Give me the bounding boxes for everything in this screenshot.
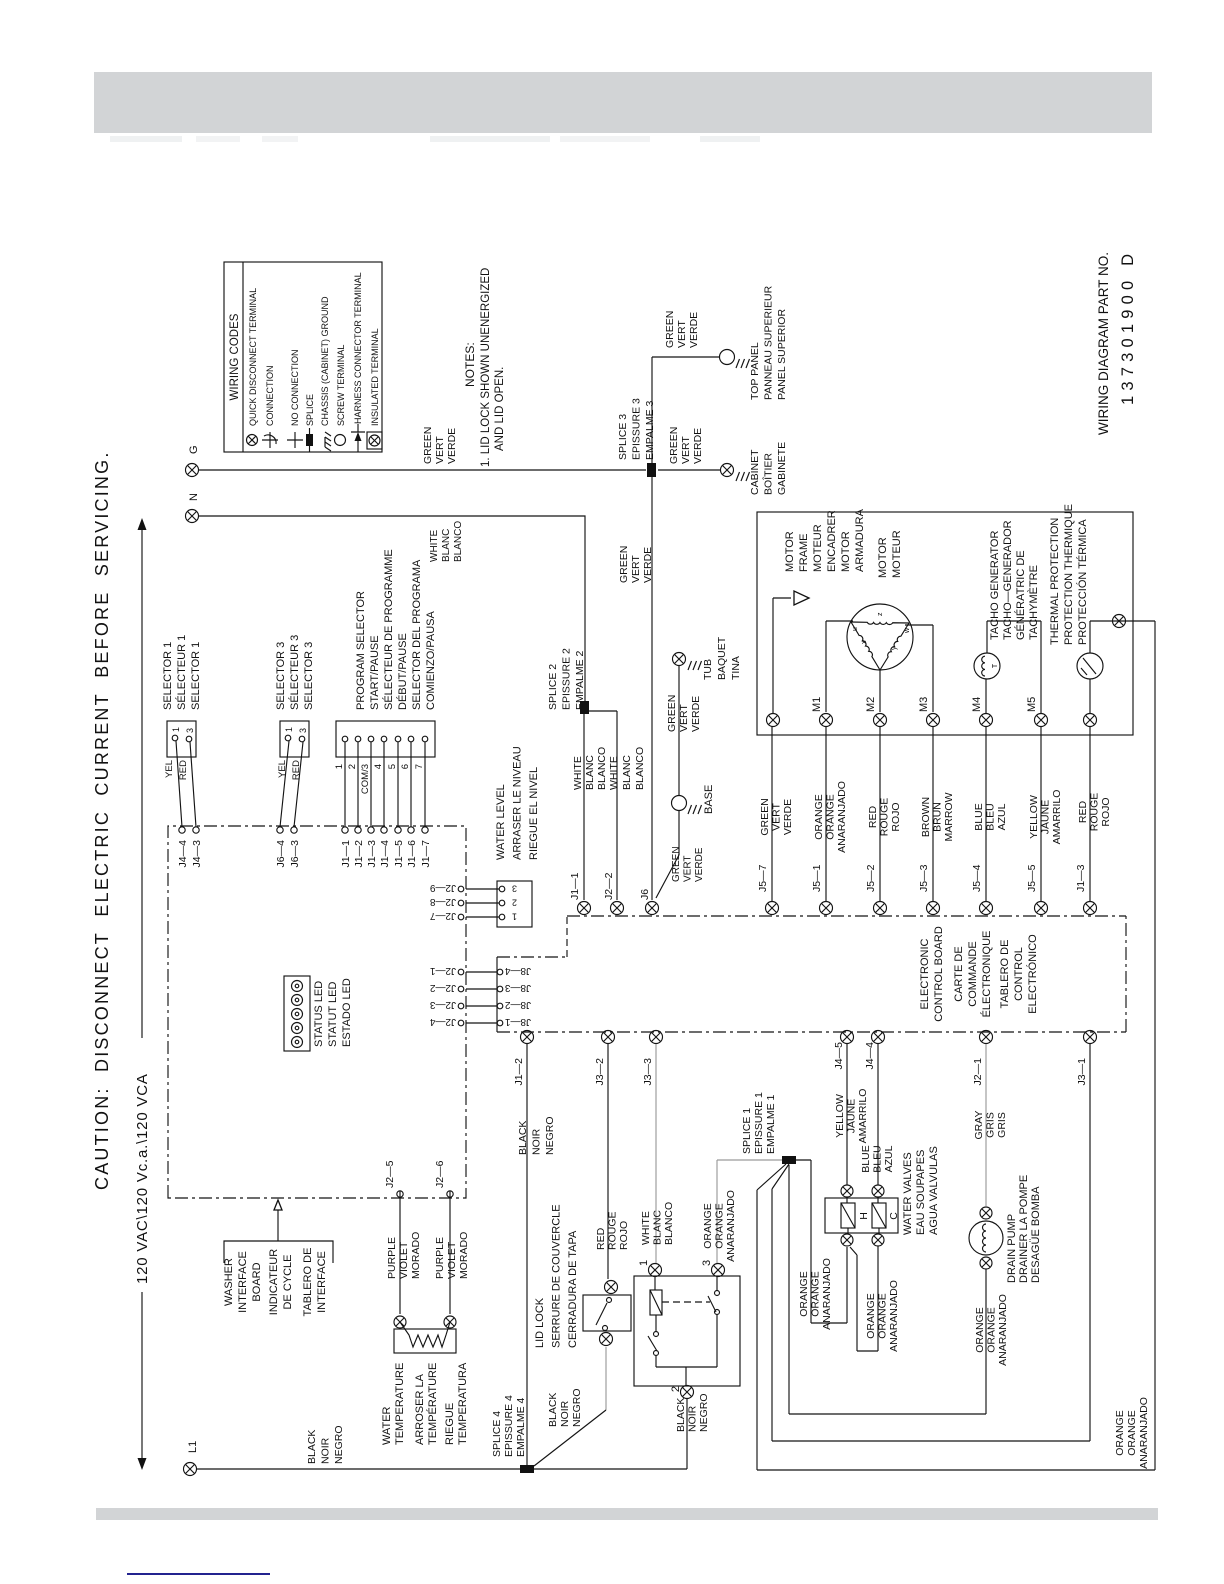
svg-text:ORANGE: ORANGE — [974, 1307, 986, 1353]
svg-text:WASHER: WASHER — [223, 1258, 235, 1306]
svg-text:DRAIN PUMP: DRAIN PUMP — [1006, 1214, 1018, 1283]
svg-text:PROTECCIÓN TÉRMICA: PROTECCIÓN TÉRMICA — [1076, 519, 1089, 645]
svg-text:WHITE: WHITE — [608, 756, 620, 790]
svg-text:CONNECTION: CONNECTION — [265, 366, 275, 427]
svg-text:RED: RED — [178, 760, 189, 780]
svg-text:WIRING CODES: WIRING CODES — [229, 313, 241, 400]
svg-text:SÉLECTEUR 1: SÉLECTEUR 1 — [175, 635, 188, 710]
svg-text:RED: RED — [867, 805, 879, 828]
svg-text:DRAINER LA POMPE: DRAINER LA POMPE — [1018, 1175, 1030, 1283]
svg-text:NO CONNECTION: NO CONNECTION — [290, 350, 300, 427]
svg-text:GREEN: GREEN — [668, 427, 680, 464]
svg-text:J2—3: J2—3 — [429, 999, 456, 1010]
svg-text:PANNEAU SUPERIEUR: PANNEAU SUPERIEUR — [763, 285, 775, 400]
svg-text:TACHO—GENERADOR: TACHO—GENERADOR — [1002, 520, 1014, 640]
svg-text:YEL: YEL — [164, 760, 175, 778]
svg-text:EAU SOUPAPES: EAU SOUPAPES — [915, 1150, 927, 1235]
svg-text:VERT: VERT — [678, 704, 690, 732]
svg-text:MOTOR: MOTOR — [784, 531, 796, 572]
svg-text:GRAY: GRAY — [973, 1111, 985, 1140]
svg-text:NOIR: NOIR — [531, 1128, 543, 1155]
svg-text:ANARANJADO: ANARANJADO — [1138, 1397, 1150, 1469]
svg-text:SPLICE: SPLICE — [305, 394, 315, 426]
svg-text:ORANGE: ORANGE — [825, 794, 837, 840]
svg-text:WHITE: WHITE — [572, 756, 584, 790]
svg-text:4: 4 — [373, 764, 384, 769]
svg-text:J8—3: J8—3 — [504, 982, 531, 993]
svg-text:T: T — [992, 663, 999, 668]
svg-text:WATER VALVES: WATER VALVES — [902, 1152, 914, 1235]
svg-text:J1—7: J1—7 — [420, 840, 432, 868]
svg-text:YEL: YEL — [277, 760, 288, 778]
svg-text:ROJO: ROJO — [618, 1221, 630, 1250]
svg-text:VERT: VERT — [771, 803, 783, 831]
svg-text:J2—2: J2—2 — [603, 872, 615, 900]
svg-text:VERDE: VERDE — [694, 847, 705, 882]
svg-text:6: 6 — [400, 764, 411, 769]
svg-text:TUB: TUB — [702, 659, 714, 680]
svg-text:ORANGE: ORANGE — [813, 794, 825, 840]
svg-text:RED: RED — [291, 760, 302, 780]
svg-text:ELECTRÓNICO: ELECTRÓNICO — [1026, 934, 1039, 1014]
svg-text:J1—5: J1—5 — [393, 840, 405, 868]
svg-text:J1—1: J1—1 — [569, 872, 581, 900]
svg-text:CARTE DE: CARTE DE — [953, 946, 965, 1001]
svg-text:BOÎTIER: BOÎTIER — [762, 453, 775, 495]
svg-text:H: H — [858, 1212, 870, 1220]
svg-text:NEGRO: NEGRO — [333, 1425, 345, 1464]
svg-text:EPISSURE 4: EPISSURE 4 — [503, 1395, 515, 1457]
svg-text:AND LID OPEN.: AND LID OPEN. — [494, 367, 506, 451]
svg-text:PURPLE: PURPLE — [386, 1237, 398, 1279]
svg-text:VERDE: VERDE — [642, 547, 654, 583]
svg-text:JAUNE: JAUNE — [1040, 800, 1052, 834]
svg-text:RIEGUE: RIEGUE — [444, 1403, 456, 1445]
svg-text:ANARANJADO: ANARANJADO — [725, 1190, 737, 1262]
svg-text:GREEN: GREEN — [422, 427, 434, 464]
svg-text:LID LOCK: LID LOCK — [534, 1297, 546, 1348]
svg-text:ORANGE: ORANGE — [1126, 1410, 1138, 1456]
svg-text:VERT: VERT — [680, 436, 692, 464]
svg-text:J1—3: J1—3 — [366, 840, 378, 868]
svg-text:J6—3: J6—3 — [289, 840, 301, 868]
svg-text:ORANGE: ORANGE — [877, 1293, 889, 1339]
svg-text:SELECTOR 3: SELECTOR 3 — [303, 642, 315, 710]
svg-text:VIOLET: VIOLET — [398, 1241, 410, 1279]
svg-text:J2—1: J2—1 — [972, 1058, 984, 1086]
svg-text:1: 1 — [638, 1260, 650, 1266]
svg-text:J2—8: J2—8 — [429, 896, 456, 907]
svg-text:SÉLECTEUR 3: SÉLECTEUR 3 — [288, 635, 301, 710]
svg-text:YELLOW: YELLOW — [834, 1094, 846, 1138]
svg-text:ROJO: ROJO — [1100, 797, 1112, 826]
svg-text:CERRADURA DE TAPA: CERRADURA DE TAPA — [567, 1230, 579, 1348]
svg-text:BLANC: BLANC — [584, 755, 596, 790]
svg-text:YELLOW: YELLOW — [1028, 795, 1040, 839]
svg-text:J5—1: J5—1 — [811, 864, 823, 892]
svg-text:NOTES:: NOTES: — [463, 342, 477, 387]
svg-text:EPISSURE 3: EPISSURE 3 — [631, 398, 643, 460]
svg-text:M3: M3 — [918, 697, 930, 712]
svg-text:GREEN: GREEN — [671, 846, 682, 882]
svg-text:GRIS: GRIS — [996, 1112, 1008, 1138]
svg-text:ÉLECTRONIQUE: ÉLECTRONIQUE — [980, 931, 993, 1018]
svg-text:DÉBUT/PAUSE: DÉBUT/PAUSE — [396, 633, 409, 710]
svg-text:ANARANJADO: ANARANJADO — [997, 1294, 1009, 1366]
svg-text:BLACK: BLACK — [517, 1121, 529, 1155]
svg-text:CHASSIS (CABINET) GROUND: CHASSIS (CABINET) GROUND — [320, 296, 330, 426]
svg-text:NEGRO: NEGRO — [544, 1116, 556, 1155]
svg-text:COM/3: COM/3 — [360, 764, 371, 794]
svg-text:1. LID LOCK SHOWN UNENERGIZED: 1. LID LOCK SHOWN UNENERGIZED — [480, 268, 492, 467]
svg-text:ANARANJADO: ANARANJADO — [888, 1280, 900, 1352]
svg-text:TACHYMÈTRE: TACHYMÈTRE — [1027, 565, 1040, 640]
svg-text:NOIR: NOIR — [687, 1405, 699, 1432]
svg-text:M5: M5 — [1026, 697, 1038, 712]
svg-text:VERDE: VERDE — [446, 428, 458, 464]
svg-text:ORANGE: ORANGE — [865, 1293, 877, 1339]
svg-text:ESTADO LED: ESTADO LED — [341, 978, 353, 1047]
svg-text:MOTEUR: MOTEUR — [812, 524, 824, 572]
svg-text:VERDE: VERDE — [782, 799, 794, 835]
svg-text:VERDE: VERDE — [692, 428, 704, 464]
svg-text:ROUGE: ROUGE — [1089, 793, 1101, 832]
svg-text:J2—9: J2—9 — [429, 882, 456, 893]
svg-text:ENCADRER: ENCADRER — [826, 510, 838, 572]
svg-text:J1—1: J1—1 — [340, 840, 352, 868]
svg-text:WHITE: WHITE — [640, 1211, 652, 1245]
svg-text:VERT: VERT — [630, 555, 642, 583]
svg-text:COMMANDE: COMMANDE — [967, 941, 979, 1006]
svg-text:GREEN: GREEN — [664, 311, 676, 348]
svg-text:PANEL SUPERIOR: PANEL SUPERIOR — [776, 309, 788, 400]
svg-text:M4: M4 — [971, 697, 983, 712]
svg-text:z: z — [877, 612, 884, 616]
svg-text:BROWN: BROWN — [920, 797, 932, 837]
svg-text:5: 5 — [387, 764, 398, 769]
svg-text:TABLERO DE: TABLERO DE — [999, 940, 1011, 1009]
svg-text:GREEN: GREEN — [618, 546, 630, 583]
svg-text:WATER: WATER — [381, 1406, 393, 1445]
svg-text:J8—1: J8—1 — [504, 1016, 531, 1027]
svg-text:ORANGE: ORANGE — [702, 1203, 714, 1249]
svg-text:TABLERO DE: TABLERO DE — [302, 1248, 314, 1317]
svg-text:J1—6: J1—6 — [406, 840, 418, 868]
svg-text:ORANGE: ORANGE — [714, 1203, 726, 1249]
svg-text:TACHO GENERATOR: TACHO GENERATOR — [989, 531, 1001, 640]
svg-text:J5—2: J5—2 — [865, 864, 877, 892]
svg-text:3: 3 — [298, 728, 308, 733]
svg-text:BLANCO: BLANCO — [453, 521, 464, 562]
svg-text:FRAME: FRAME — [798, 534, 810, 573]
svg-text:INSULATED TERMINAL: INSULATED TERMINAL — [370, 328, 380, 426]
svg-text:DE CYCLE: DE CYCLE — [282, 1254, 294, 1309]
svg-text:BLANC: BLANC — [652, 1210, 664, 1245]
svg-text:EMPALME 4: EMPALME 4 — [515, 1398, 527, 1457]
svg-text:SCREW TERMINAL: SCREW TERMINAL — [336, 345, 346, 426]
svg-text:JAUNE: JAUNE — [846, 1099, 858, 1133]
svg-text:ARROSER LA: ARROSER LA — [414, 1373, 426, 1445]
svg-text:ARMADURA: ARMADURA — [854, 508, 866, 572]
svg-text:120 VAC\120 Vc.a.\120 VCA: 120 VAC\120 Vc.a.\120 VCA — [134, 1073, 151, 1284]
svg-text:VERDE: VERDE — [690, 696, 702, 732]
svg-text:1: 1 — [171, 727, 181, 732]
svg-text:TEMPERATURE: TEMPERATURE — [394, 1363, 406, 1445]
svg-text:AZUL: AZUL — [883, 1145, 895, 1172]
svg-text:SPLICE 3: SPLICE 3 — [617, 414, 629, 460]
svg-text:BLACK: BLACK — [306, 1430, 318, 1464]
svg-text:J4—3: J4—3 — [191, 840, 203, 868]
svg-text:BLANC: BLANC — [441, 529, 452, 562]
svg-text:WHITE: WHITE — [429, 529, 440, 562]
svg-text:MARROW: MARROW — [943, 792, 955, 841]
svg-text:VIOLET: VIOLET — [446, 1241, 458, 1279]
svg-text:J4—4: J4—4 — [177, 840, 189, 868]
svg-text:SPLICE 4: SPLICE 4 — [491, 1411, 503, 1457]
svg-text:C: C — [888, 1212, 900, 1220]
svg-text:x: x — [861, 640, 868, 644]
svg-text:7: 7 — [414, 764, 425, 769]
svg-text:VERT: VERT — [683, 856, 694, 883]
svg-text:SERRURE DE COUVERCLE: SERRURE DE COUVERCLE — [551, 1204, 563, 1348]
svg-text:AMARRILO: AMARRILO — [857, 1089, 869, 1144]
svg-text:HARNESS CONNECTOR TERMINAL: HARNESS CONNECTOR TERMINAL — [353, 272, 363, 424]
svg-text:J1—2: J1—2 — [353, 840, 365, 868]
svg-text:ORANGE: ORANGE — [1114, 1410, 1126, 1456]
svg-text:NEGRO: NEGRO — [571, 1388, 583, 1427]
svg-text:WIRING DIAGRAM PART NO.: WIRING DIAGRAM PART NO. — [1096, 252, 1111, 435]
svg-text:VERT: VERT — [676, 320, 688, 348]
svg-text:BLEU: BLEU — [872, 1145, 884, 1172]
svg-text:1: 1 — [334, 764, 345, 769]
svg-text:J2—6: J2—6 — [434, 1160, 446, 1188]
svg-text:J1—2: J1—2 — [513, 1058, 525, 1086]
svg-text:w: w — [904, 627, 911, 634]
svg-text:3: 3 — [512, 884, 517, 894]
svg-text:J2—4: J2—4 — [429, 1016, 456, 1027]
svg-text:ANARANJADO: ANARANJADO — [836, 781, 848, 853]
svg-text:ORANGE: ORANGE — [986, 1307, 998, 1353]
svg-text:ARRASER LE NIVEAU: ARRASER LE NIVEAU — [512, 746, 524, 860]
svg-text:MOTOR: MOTOR — [877, 537, 889, 578]
svg-text:VERT: VERT — [434, 436, 446, 464]
svg-text:u: u — [852, 627, 859, 631]
svg-text:J2—1: J2—1 — [429, 965, 456, 976]
svg-text:J6—4: J6—4 — [275, 840, 287, 868]
svg-text:DESAGÜE BOMBA: DESAGÜE BOMBA — [1030, 1186, 1042, 1283]
svg-text:J2—5: J2—5 — [384, 1160, 396, 1188]
svg-text:START/PAUSE: START/PAUSE — [369, 635, 381, 710]
svg-text:CABINET: CABINET — [749, 449, 761, 495]
svg-text:INDICATEUR: INDICATEUR — [268, 1249, 280, 1315]
svg-text:BLACK: BLACK — [547, 1393, 559, 1427]
svg-text:SÉLECTEUR DE PROGRAMME: SÉLECTEUR DE PROGRAMME — [382, 549, 395, 710]
svg-text:BAQUET: BAQUET — [716, 636, 728, 680]
svg-text:MOTEUR: MOTEUR — [891, 530, 903, 578]
svg-text:QUICK DISCONNECT TERMINAL: QUICK DISCONNECT TERMINAL — [248, 288, 258, 426]
svg-text:STATUS LED: STATUS LED — [313, 981, 325, 1047]
svg-text:NEGRO: NEGRO — [698, 1393, 710, 1432]
svg-text:SELECTOR 1: SELECTOR 1 — [162, 642, 174, 710]
svg-text:INTERFACE: INTERFACE — [316, 1251, 328, 1313]
svg-text:RED: RED — [595, 1227, 607, 1250]
svg-text:BLEU: BLEU — [985, 803, 997, 830]
svg-text:AZUL: AZUL — [996, 803, 1008, 830]
svg-text:INTERFACE: INTERFACE — [237, 1251, 249, 1313]
svg-text:MORADO: MORADO — [410, 1232, 422, 1279]
svg-text:SPLICE 2: SPLICE 2 — [547, 664, 559, 710]
svg-text:GREEN: GREEN — [759, 798, 771, 835]
svg-text:SELECTOR 1: SELECTOR 1 — [190, 642, 202, 710]
svg-text:COMIENZO/PAUSA: COMIENZO/PAUSA — [425, 611, 437, 710]
svg-text:GABINETE: GABINETE — [776, 442, 788, 495]
svg-text:J5—4: J5—4 — [971, 864, 983, 892]
svg-text:GRIS: GRIS — [985, 1112, 997, 1138]
svg-text:MORADO: MORADO — [458, 1232, 470, 1279]
svg-text:EMPALME 3: EMPALME 3 — [644, 401, 656, 460]
svg-text:EPISSURE 2: EPISSURE 2 — [561, 648, 573, 710]
svg-text:1: 1 — [284, 727, 294, 732]
svg-text:BASE: BASE — [703, 785, 715, 814]
svg-text:VERDE: VERDE — [688, 312, 700, 348]
svg-text:TOP PANEL: TOP PANEL — [749, 342, 761, 400]
svg-text:M1: M1 — [811, 697, 823, 712]
svg-text:MOTOR: MOTOR — [840, 531, 852, 572]
svg-text:EMPALME 1: EMPALME 1 — [765, 1095, 777, 1154]
svg-text:ELECTRONIC: ELECTRONIC — [919, 938, 931, 1009]
svg-text:J5—5: J5—5 — [1026, 864, 1038, 892]
svg-text:PROTECTION THERMIQUE: PROTECTION THERMIQUE — [1063, 504, 1075, 645]
svg-text:J6: J6 — [639, 889, 651, 900]
svg-text:NOIR: NOIR — [559, 1400, 571, 1427]
svg-text:THERMAL PROTECTION: THERMAL PROTECTION — [1049, 518, 1061, 645]
svg-text:J2—2: J2—2 — [429, 982, 456, 993]
svg-text:BLUE: BLUE — [860, 1145, 872, 1172]
svg-text:AMARRILO: AMARRILO — [1051, 790, 1063, 845]
svg-text:BOARD: BOARD — [251, 1262, 263, 1301]
svg-text:J2—7: J2—7 — [429, 910, 456, 921]
svg-text:WATER LEVEL: WATER LEVEL — [495, 784, 507, 860]
svg-text:EMPALME 2: EMPALME 2 — [574, 651, 586, 710]
svg-text:M2: M2 — [865, 697, 877, 712]
svg-text:CAUTION: DISCONNECT ELECTRIC: CAUTION: DISCONNECT ELECTRIC CURRENT BEF… — [92, 450, 112, 1190]
svg-text:ORANGE: ORANGE — [798, 1271, 810, 1317]
svg-text:RIEGUE EL NIVEL: RIEGUE EL NIVEL — [528, 767, 540, 860]
svg-text:J3—1: J3—1 — [1076, 1058, 1088, 1086]
svg-text:J1—4: J1—4 — [379, 840, 391, 868]
svg-text:137301900 D: 137301900 D — [1119, 249, 1137, 405]
svg-text:ROJO: ROJO — [890, 802, 902, 831]
svg-text:AGUA VALVULAS: AGUA VALVULAS — [928, 1146, 940, 1235]
svg-text:EPISSURE 1: EPISSURE 1 — [753, 1092, 765, 1154]
svg-text:L1: L1 — [187, 1441, 199, 1453]
svg-text:J3—2: J3—2 — [594, 1058, 606, 1086]
svg-text:SELECTOR 3: SELECTOR 3 — [275, 642, 287, 710]
svg-text:BLANC: BLANC — [621, 755, 633, 790]
svg-text:J8—4: J8—4 — [504, 965, 531, 976]
svg-text:GÉNÉRATRIC DE: GÉNÉRATRIC DE — [1014, 550, 1027, 640]
svg-text:NOIR: NOIR — [320, 1437, 332, 1464]
svg-text:PROGRAM SELECTOR: PROGRAM SELECTOR — [355, 591, 367, 710]
svg-text:2: 2 — [670, 1386, 682, 1392]
svg-text:G: G — [188, 445, 200, 454]
svg-text:SELECTOR DEL PROGRAMA: SELECTOR DEL PROGRAMA — [411, 559, 423, 710]
svg-text:3: 3 — [701, 1260, 713, 1266]
svg-text:J1—3: J1—3 — [1075, 864, 1087, 892]
svg-text:J5—3: J5—3 — [918, 864, 930, 892]
svg-text:BLANCO: BLANCO — [634, 747, 646, 790]
svg-text:BLUE: BLUE — [973, 803, 985, 830]
svg-text:BLACK: BLACK — [675, 1398, 687, 1432]
svg-text:J5—7: J5—7 — [757, 864, 769, 892]
svg-text:y: y — [891, 646, 898, 650]
svg-text:3: 3 — [185, 728, 195, 733]
svg-text:RED: RED — [1077, 800, 1089, 823]
svg-text:BRUN: BRUN — [932, 802, 944, 832]
svg-text:ORANGE: ORANGE — [810, 1271, 822, 1317]
svg-text:2: 2 — [347, 764, 358, 769]
svg-text:PURPLE: PURPLE — [434, 1237, 446, 1279]
svg-text:TEMPÉRATURE: TEMPÉRATURE — [426, 1363, 439, 1445]
svg-text:SPLICE 1: SPLICE 1 — [741, 1108, 753, 1154]
svg-text:ROUGE: ROUGE — [879, 798, 891, 837]
svg-text:J4—4: J4—4 — [864, 1042, 876, 1070]
svg-text:ANARANJADO: ANARANJADO — [821, 1258, 833, 1330]
svg-text:CONTROL: CONTROL — [1013, 947, 1025, 1001]
svg-text:ROUGE: ROUGE — [607, 1211, 619, 1250]
svg-text:TEMPERATURA: TEMPERATURA — [457, 1362, 469, 1445]
svg-text:J4—5: J4—5 — [833, 1042, 845, 1070]
svg-text:N: N — [188, 493, 200, 501]
svg-text:BLANCO: BLANCO — [596, 747, 608, 790]
svg-text:2: 2 — [512, 898, 517, 908]
svg-text:STATUT LED: STATUT LED — [327, 982, 339, 1047]
svg-text:TINA: TINA — [730, 656, 742, 680]
svg-text:J3—3: J3—3 — [642, 1058, 654, 1086]
svg-text:J8—2: J8—2 — [504, 999, 531, 1010]
svg-text:GREEN: GREEN — [666, 695, 678, 732]
svg-text:BLANCO: BLANCO — [663, 1202, 675, 1245]
svg-text:1: 1 — [512, 912, 517, 922]
svg-text:CONTROL BOARD: CONTROL BOARD — [933, 926, 945, 1022]
